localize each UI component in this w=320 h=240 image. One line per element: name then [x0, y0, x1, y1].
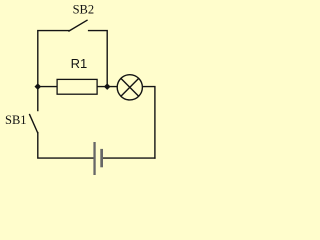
- svg-text:SB2: SB2: [73, 2, 95, 16]
- wire node A to resistor R1: [38, 86, 57, 88]
- battery long plate (positive): [93, 142, 95, 175]
- svg-text:R1: R1: [71, 56, 88, 71]
- lamp circle: [117, 75, 142, 100]
- wire top-left: left vertical from top corner down through junction to SB1 top contact: [38, 31, 69, 111]
- switch SB1 blade: [30, 115, 38, 133]
- battery short plate (negative): [100, 149, 103, 167]
- wire lamp to right corner and right vertical: [142, 87, 155, 159]
- wire resistor R1 to lamp through junction B: [97, 86, 117, 88]
- wire top-right and right-upper vertical down to junction B: [89, 31, 108, 87]
- wire bottom-right: corner to battery plus plate: [103, 157, 155, 159]
- switch SB2 blade: [69, 20, 87, 31]
- resistor R1: [57, 79, 97, 94]
- svg-text:SB1: SB1: [5, 113, 27, 127]
- node A junction dot: [35, 83, 42, 90]
- lamp cross: [121, 78, 139, 96]
- wire bottom-left: battery to SB1 bottom contact: [38, 133, 94, 159]
- node B junction dot: [104, 83, 111, 90]
